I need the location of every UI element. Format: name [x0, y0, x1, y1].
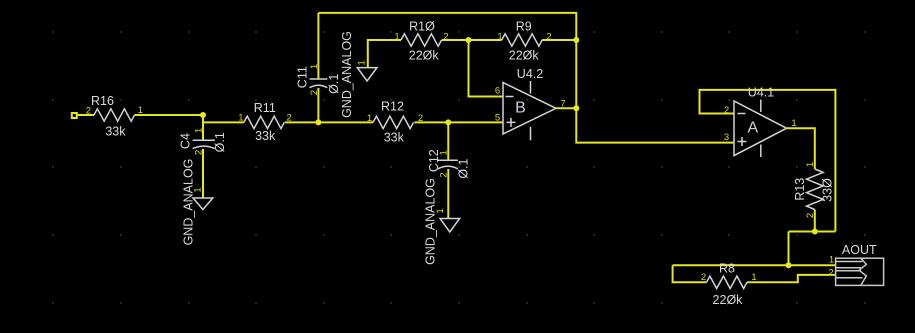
- R12 label: [381, 100, 404, 114]
- top rail wire: [318, 13, 576, 40]
- wire R10 to R9: [442, 39, 502, 41]
- svg-text:GND_ANALOG: GND_ANALOG: [182, 159, 196, 246]
- R10 label: [409, 20, 435, 34]
- ground GND_ANALOG (R10): [357, 68, 377, 81]
- capacitor C4: [193, 140, 215, 148]
- svg-text:B: B: [515, 99, 526, 116]
- AOUT label: [842, 243, 877, 257]
- C4 pin 1: [193, 128, 204, 133]
- resistor R13: [807, 169, 824, 210]
- wire C4 to ground: [202, 149, 204, 198]
- R12 value 33k: [384, 130, 405, 144]
- svg-text:22Øk: 22Øk: [509, 49, 540, 63]
- port square (input): [72, 113, 77, 118]
- wire node C down to C12: [447, 122, 449, 160]
- svg-text:U4.2: U4.2: [517, 67, 543, 81]
- svg-text:R11: R11: [254, 101, 276, 115]
- connector AOUT: [836, 258, 884, 285]
- wire node C to op-amp pin 5: [448, 121, 503, 123]
- R16 pin 1: [138, 105, 143, 116]
- svg-text:22Øk: 22Øk: [409, 49, 440, 63]
- svg-text:R16: R16: [91, 94, 114, 108]
- U4.1 pin 1: [791, 118, 796, 129]
- R13 label: [793, 178, 807, 201]
- svg-text:3: 3: [724, 132, 729, 143]
- wire R9 to node E: [542, 39, 576, 41]
- svg-text:R1Ø: R1Ø: [409, 20, 435, 34]
- AOUT pin 2: [828, 268, 833, 279]
- svg-text:1: 1: [367, 113, 372, 124]
- svg-text:1: 1: [394, 31, 399, 42]
- U4.2 B marker: [515, 99, 526, 116]
- R13 value 330: [820, 178, 834, 202]
- GND_ANALOG label (R10): [340, 31, 354, 118]
- GND_ANALOG label (C12): [423, 178, 437, 265]
- op-amp U4.2: [503, 81, 556, 140]
- svg-text:Ø.1: Ø.1: [213, 132, 227, 152]
- node H junction: [786, 262, 792, 268]
- svg-text:Ø.1: Ø.1: [457, 158, 471, 178]
- svg-text:1: 1: [357, 60, 368, 65]
- U4.1 pin 3: [724, 132, 729, 143]
- node F junction: [573, 105, 579, 111]
- wire U4.1 output to R13: [787, 128, 815, 169]
- C4 pin 2: [193, 150, 204, 155]
- R11 pin 2: [287, 113, 292, 124]
- R16 value 33k: [105, 124, 126, 138]
- svg-text:A: A: [747, 120, 758, 137]
- capacitor C11: [310, 79, 328, 88]
- R10 value 220k: [409, 49, 440, 63]
- AOUT pin 1: [829, 254, 834, 265]
- C4 label: [179, 133, 193, 149]
- C11 label: [295, 66, 309, 88]
- wire node F to U4.1 pin 3: [576, 108, 734, 142]
- svg-text:R9: R9: [516, 20, 532, 34]
- resistor R11: [244, 116, 285, 128]
- R8 label: [719, 262, 735, 276]
- R10 pin 2: [443, 31, 448, 42]
- C4 value 0.1: [213, 132, 227, 152]
- node G junction: [812, 229, 818, 235]
- svg-text:2: 2: [701, 272, 706, 283]
- svg-text:2: 2: [828, 268, 833, 279]
- node E junction: [573, 37, 579, 43]
- svg-text:2: 2: [724, 105, 729, 116]
- svg-text:GND_ANALOG: GND_ANALOG: [340, 31, 354, 118]
- svg-text:1: 1: [805, 162, 816, 167]
- svg-text:1: 1: [439, 150, 450, 155]
- ground GND_ANALOG (C4): [193, 198, 213, 210]
- R8 pin 1: [751, 272, 756, 283]
- capacitor C12: [438, 160, 458, 169]
- node C junction: [445, 119, 451, 125]
- U4.2 pin 6: [495, 86, 500, 97]
- C11 pin 1: [309, 64, 320, 69]
- R10 pin 1: [394, 31, 399, 42]
- svg-text:R12: R12: [381, 100, 404, 114]
- R11 label: [254, 101, 276, 115]
- wire C12 to ground: [447, 169, 449, 219]
- wire R12 to node C: [414, 121, 448, 123]
- wire R13 to node G: [814, 210, 816, 232]
- C11 value 0.1: [327, 74, 341, 94]
- svg-text:U4.1: U4.1: [748, 86, 774, 100]
- svg-text:GND_ANALOG: GND_ANALOG: [423, 178, 437, 265]
- node A junction: [200, 112, 206, 118]
- wire node B up through C11: [317, 88, 319, 123]
- R13 pin 2: [805, 213, 816, 218]
- svg-text:AOUT: AOUT: [842, 243, 877, 257]
- wire node G horizontals: [789, 231, 836, 233]
- wire AOUT row: [673, 264, 836, 266]
- svg-text:33Ø: 33Ø: [820, 178, 834, 202]
- svg-text:5: 5: [495, 113, 500, 124]
- R12 pin 1: [367, 113, 372, 124]
- svg-text:C4: C4: [179, 133, 193, 149]
- C12 ground pin 1: [435, 208, 446, 213]
- R9 pin 2: [546, 31, 551, 42]
- svg-text:1: 1: [238, 113, 243, 124]
- R16 label: [91, 94, 114, 108]
- resistor R9: [502, 34, 542, 46]
- node B junction: [315, 119, 321, 125]
- C11 pin 2: [309, 90, 320, 95]
- wire R10 pin1 to ground: [368, 40, 401, 68]
- svg-text:R13: R13: [793, 178, 807, 201]
- wire C11 to top rail: [317, 13, 319, 79]
- wire node A down to C4: [202, 115, 204, 140]
- wire R11 to node B: [285, 121, 319, 123]
- U4.1 label: [748, 86, 774, 100]
- U4.2 label: [517, 67, 543, 81]
- R16 pin 2: [86, 106, 91, 117]
- node D junction: [466, 37, 472, 43]
- svg-text:33k: 33k: [255, 129, 276, 143]
- wire node A jog to R11: [203, 121, 244, 123]
- wire R8 to AOUT pin 2: [747, 275, 836, 282]
- resistor R16: [94, 109, 135, 121]
- wire R16 to node A: [135, 114, 204, 116]
- R13 pin 1: [805, 162, 816, 167]
- op-amp U4.1: [734, 100, 787, 158]
- svg-text:1: 1: [193, 128, 204, 133]
- svg-text:R8: R8: [719, 262, 735, 276]
- C12 value 0.1: [457, 158, 471, 178]
- R9 label: [516, 20, 532, 34]
- resistor R8: [707, 276, 748, 288]
- svg-text:33k: 33k: [105, 124, 126, 138]
- R10 ground pin 1: [357, 60, 368, 65]
- svg-text:1: 1: [829, 254, 834, 265]
- svg-text:1: 1: [497, 31, 502, 42]
- wire U4.1 pin 2 feedback: [700, 90, 836, 232]
- R9 value 220k: [509, 49, 540, 63]
- wire port to R16: [77, 114, 94, 116]
- wire node D to op-amp pin 6: [469, 40, 504, 97]
- C12 pin 2: [439, 172, 450, 177]
- U4.2 pin 7: [560, 99, 565, 110]
- U4.2 pin 5: [495, 113, 500, 124]
- C12 pin 1: [439, 150, 450, 155]
- wire node B to R12: [318, 121, 373, 123]
- resistor R12: [373, 116, 414, 128]
- C4 ground pin 1: [192, 187, 203, 192]
- svg-text:22Øk: 22Øk: [713, 293, 744, 307]
- svg-text:6: 6: [495, 86, 500, 97]
- svg-text:2: 2: [86, 106, 91, 117]
- U4.1 pin 2: [724, 105, 729, 116]
- C12 label: [427, 149, 441, 172]
- U4.1 A marker: [747, 120, 758, 137]
- R8 pin 2: [701, 272, 706, 283]
- R8 value 220k: [713, 293, 744, 307]
- resistor R10: [401, 34, 442, 46]
- R11 value 33k: [255, 129, 276, 143]
- wire node G down to node H: [788, 232, 790, 266]
- R12 pin 2: [418, 113, 423, 124]
- svg-text:33k: 33k: [384, 130, 405, 144]
- R11 pin 1: [238, 113, 243, 124]
- R9 pin 1: [497, 31, 502, 42]
- wire down to R8: [673, 265, 707, 282]
- ground GND_ANALOG (C12): [440, 219, 460, 233]
- svg-text:C11: C11: [295, 66, 309, 88]
- wire node E down to output node: [575, 40, 577, 108]
- wire U4.2 output to node F: [556, 107, 576, 109]
- GND_ANALOG label (C4): [182, 159, 196, 246]
